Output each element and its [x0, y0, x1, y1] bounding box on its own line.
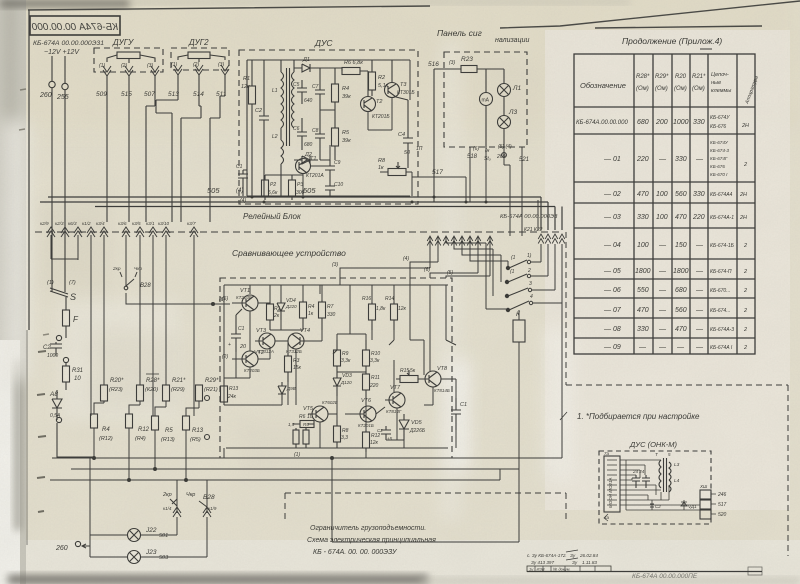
- table header: [580, 72, 760, 106]
- svg-text:R31: R31: [72, 368, 83, 374]
- svg-text:507: 507: [144, 91, 155, 98]
- svg-text:R6 6,8к: R6 6,8к: [344, 60, 363, 66]
- lamp L1: [498, 69, 522, 110]
- svg-text:12к: 12к: [398, 306, 407, 312]
- terminal 255: [62, 83, 68, 89]
- svg-text:24к: 24к: [227, 394, 237, 400]
- svg-text:VT1: VT1: [240, 288, 250, 294]
- svg-text:2: 2: [743, 243, 747, 249]
- connector arrow labels: [40, 221, 196, 226]
- resistor R23: [428, 56, 500, 202]
- svg-text:к3/6: к3/6: [118, 221, 127, 226]
- svg-text:330: 330: [675, 156, 687, 163]
- svg-text:2: 2: [743, 269, 747, 275]
- svg-text:521: 521: [519, 157, 529, 163]
- svg-text:R7: R7: [327, 304, 334, 310]
- svg-text:ХШ: ХШ: [699, 484, 708, 489]
- svg-text:КБ-674А-3: КБ-674А-3: [710, 327, 734, 333]
- svg-text:+: +: [228, 342, 231, 348]
- svg-text:39к: 39к: [342, 138, 351, 144]
- svg-text:L1: L1: [272, 88, 278, 94]
- svg-text:КТ201А: КТ201А: [306, 173, 324, 179]
- svg-text:2кр: 2кр: [162, 492, 172, 498]
- svg-text:3,3: 3,3: [341, 435, 348, 441]
- wire 514: [181, 75, 201, 222]
- resistor R6: [320, 60, 368, 75]
- svg-text:(5) (4): (5) (4): [498, 144, 512, 150]
- svg-text:1,8к: 1,8к: [376, 306, 386, 312]
- svg-text:560: 560: [675, 307, 687, 314]
- svg-text:1800: 1800: [635, 268, 651, 275]
- svg-text:(R23): (R23): [109, 387, 123, 393]
- svg-text:20: 20: [239, 344, 247, 350]
- svg-text:1. *Подбирается при настройк: 1. *Подбирается при настройке: [577, 412, 700, 421]
- svg-text:КБ-674-П: КБ-674-П: [710, 269, 732, 275]
- svg-text:520: 520: [718, 512, 727, 518]
- svg-text:С1: С1: [238, 326, 245, 332]
- svg-text:2: 2: [743, 288, 747, 294]
- block DUGU dashed box: [94, 38, 163, 72]
- svg-text:— 01: — 01: [603, 156, 621, 163]
- resistor R4c: [300, 300, 315, 330]
- svg-text:—: —: [638, 344, 647, 351]
- svg-text:R1: R1: [243, 76, 250, 82]
- capacitor C1 comp: [228, 309, 247, 352]
- svg-text:Р3: Р3: [297, 182, 303, 188]
- svg-text:VT3: VT3: [256, 328, 267, 334]
- svg-text:R5: R5: [165, 428, 173, 434]
- connector right: [699, 484, 727, 519]
- svg-text:VД1: VД1: [688, 504, 697, 509]
- wire -12V feed: [51, 56, 53, 287]
- potentiometer R8: [378, 158, 412, 176]
- svg-text:R28*: R28*: [636, 74, 650, 80]
- svg-text:(Ом): (Ом): [692, 86, 705, 92]
- svg-text:(4): (4): [236, 188, 243, 194]
- svg-text:— 05: — 05: [603, 268, 621, 275]
- wire DUS bottom rail: [247, 60, 410, 196]
- svg-text:(Ом): (Ом): [636, 86, 649, 92]
- svg-text:1000: 1000: [47, 353, 58, 359]
- svg-text:680: 680: [675, 287, 687, 294]
- transformer ONK-M: [655, 452, 680, 492]
- capacitor C9: [325, 160, 341, 180]
- svg-text:L4: L4: [674, 478, 680, 484]
- transistor T3: [385, 60, 416, 98]
- resistor R2b: [262, 175, 278, 200]
- block ONK-M dashed box: [599, 451, 711, 524]
- resistor R16: [362, 296, 386, 330]
- wire ONK-M mesh: [620, 460, 700, 516]
- connector arrows right cluster: [538, 234, 565, 244]
- wire ladder feeds: [446, 236, 508, 309]
- svg-text:Д226Б: Д226Б: [409, 428, 426, 434]
- svg-text:50: 50: [404, 150, 411, 156]
- diode VD5: [399, 414, 426, 440]
- svg-text:— 08: — 08: [603, 326, 621, 333]
- capacitor C4 dus: [396, 97, 413, 168]
- svg-text:(1: (1: [510, 269, 515, 275]
- svg-text:МООН МО21А: МООН МО21А: [608, 477, 613, 508]
- svg-text:КТ814Г: КТ814Г: [386, 409, 402, 414]
- svg-text:514: 514: [193, 91, 204, 98]
- svg-text:—: —: [695, 287, 704, 294]
- svg-text:R4: R4: [308, 304, 315, 310]
- wire 511: [210, 75, 225, 222]
- transistor T1: [296, 156, 325, 179]
- diode VD4: [277, 298, 297, 320]
- svg-text:220: 220: [369, 383, 379, 389]
- svg-text:260: 260: [39, 92, 52, 99]
- transistor VT8: [424, 366, 450, 393]
- svg-text:ные: ные: [711, 80, 721, 86]
- lamp J23: [90, 549, 207, 564]
- wire long bus 505 upper: [40, 197, 562, 230]
- svg-text:5к: 5к: [410, 368, 416, 374]
- resistor R2 dus: [369, 60, 389, 96]
- svg-text:680: 680: [304, 142, 313, 148]
- svg-text:— 03: — 03: [603, 214, 621, 221]
- capacitor C2: [43, 335, 62, 359]
- resistor Rb: [267, 302, 281, 330]
- svg-text:1.11.83: 1.11.83: [582, 560, 597, 565]
- svg-text:R10: R10: [371, 351, 380, 357]
- svg-text:513: 513: [168, 91, 179, 98]
- svg-text:255: 255: [56, 94, 69, 101]
- svg-text:2к: 2к: [273, 313, 280, 319]
- svg-text:Л1: Л1: [512, 85, 521, 92]
- fuse F: [63, 297, 80, 338]
- resistor R1: [241, 60, 256, 196]
- wire panel drops long: [510, 200, 562, 458]
- switch B28 upper: [112, 266, 230, 306]
- svg-text:503: 503: [159, 555, 169, 561]
- svg-text:к1/2: к1/2: [82, 221, 91, 226]
- svg-text:R11: R11: [371, 375, 380, 381]
- svg-text:(2): (2): [222, 354, 228, 360]
- svg-text:mA: mA: [482, 98, 490, 104]
- switch contact St4: [486, 294, 562, 312]
- svg-text:R4: R4: [342, 86, 349, 92]
- svg-text:— 09: — 09: [603, 344, 621, 351]
- resistor R7: [319, 300, 336, 330]
- diode VD2: [278, 382, 296, 400]
- svg-text:Панель сиг: Панель сиг: [437, 28, 482, 38]
- svg-text:3: 3: [529, 281, 532, 287]
- wire DUS top rail: [247, 59, 410, 61]
- svg-text:100: 100: [656, 191, 668, 198]
- svg-text:Р2: Р2: [270, 182, 276, 188]
- svg-text:КБ-674Г: КБ-674Г: [710, 156, 728, 161]
- svg-text:С4: С4: [398, 132, 405, 138]
- diode D2: [294, 152, 318, 164]
- svg-text:(R21): (R21): [204, 387, 218, 393]
- svg-text:Д9В: Д9В: [286, 386, 296, 391]
- svg-text:VT4: VT4: [300, 328, 310, 334]
- svg-text:2кр: 2кр: [112, 266, 121, 272]
- svg-text:В28: В28: [203, 494, 215, 501]
- svg-text:−12V +12V: −12V +12V: [44, 49, 80, 56]
- svg-text:R23: R23: [461, 56, 473, 63]
- svg-text:(R5): (R5): [190, 437, 201, 443]
- wire +12V feed: [64, 56, 66, 287]
- svg-text:С7: С7: [312, 84, 319, 90]
- svg-text:КБ - 674А. 00. 00. 000ЭЗУ: КБ - 674А. 00. 00. 000ЭЗУ: [313, 549, 398, 556]
- svg-text:КТ814Б: КТ814Б: [434, 388, 450, 393]
- wire 515: [128, 76, 130, 222]
- svg-text:— 02: — 02: [603, 191, 621, 198]
- svg-text:С5: С5: [293, 82, 300, 88]
- wire down left: [56, 448, 58, 458]
- wire ladder right returns: [541, 244, 562, 303]
- svg-text:515: 515: [121, 91, 132, 98]
- capacitor C2 comp: [377, 426, 393, 441]
- svg-text:470: 470: [675, 326, 687, 333]
- svg-text:—: —: [695, 268, 704, 275]
- svg-text:КТ301Б: КТ301Б: [397, 90, 415, 96]
- svg-text:КБ-670 I: КБ-670 I: [710, 172, 728, 177]
- svg-text:1000: 1000: [673, 119, 689, 126]
- left edge artifact marks: [37, 351, 46, 512]
- svg-text:(6): (6): [424, 267, 430, 273]
- svg-text:VT8: VT8: [437, 366, 448, 372]
- svg-text:R16: R16: [362, 296, 371, 302]
- svg-text:2: 2: [743, 162, 747, 168]
- svg-text:680: 680: [637, 119, 649, 126]
- svg-text:R13: R13: [229, 386, 238, 392]
- svg-text:1П: 1П: [416, 146, 423, 152]
- svg-text:L3: L3: [674, 462, 680, 468]
- resistor R28*: [137, 374, 161, 405]
- svg-text:к1/4: к1/4: [163, 506, 172, 511]
- wire panel drops: [470, 147, 522, 202]
- svg-text:R15: R15: [400, 368, 409, 374]
- svg-text:—: —: [676, 344, 685, 351]
- svg-text:ДУС: ДУС: [314, 38, 333, 48]
- switch B28 lower: [162, 492, 217, 557]
- block dashed boundaries right/bottom: [285, 232, 788, 556]
- diode D1: [294, 57, 320, 72]
- svg-text:R4: R4: [102, 427, 110, 433]
- svg-text:2: 2: [743, 308, 747, 314]
- svg-text:Т2: Т2: [376, 99, 382, 105]
- svg-text:J23: J23: [145, 549, 157, 556]
- svg-text:R20*: R20*: [110, 378, 124, 384]
- svg-text:10: 10: [74, 376, 81, 382]
- block DUS dashed box: [239, 38, 418, 204]
- connector arrows DUG2: [174, 65, 229, 75]
- bottom dark strip: [8, 575, 428, 584]
- resistor R14: [385, 296, 407, 330]
- svg-text:КБ-674-3: КБ-674-3: [710, 148, 729, 153]
- svg-text:Зу 413 397: Зу 413 397: [531, 560, 554, 565]
- svg-text:R8: R8: [342, 428, 349, 434]
- svg-text:КБ-674А 00.00.000ПЕ: КБ-674А 00.00.000ПЕ: [632, 573, 698, 580]
- svg-text:Зу: Зу: [572, 560, 578, 565]
- svg-text:к3/5: к3/5: [132, 221, 141, 226]
- svg-text:Цепоч-: Цепоч-: [711, 72, 729, 78]
- svg-text:505: 505: [207, 186, 220, 195]
- svg-text:С2: С2: [43, 345, 51, 351]
- svg-text:R6: R6: [299, 414, 306, 420]
- svg-text:К21 К22: К21 К22: [524, 227, 543, 233]
- transistor VT4: [286, 328, 310, 354]
- svg-text:R9: R9: [342, 351, 349, 357]
- wire 513: [156, 75, 178, 222]
- wire comparing inner links: [224, 285, 456, 458]
- resistor R10: [363, 340, 381, 372]
- svg-text:КБ-674А 00.00.000Э3: КБ-674А 00.00.000Э3: [500, 214, 558, 220]
- svg-text:—: —: [658, 156, 667, 163]
- svg-text:—: —: [695, 242, 704, 249]
- resistor R31: [63, 357, 84, 390]
- terminal 260 bottom: [55, 535, 90, 557]
- capacitor C6: [293, 118, 313, 150]
- wire 507: [146, 76, 155, 222]
- resistor R8c: [334, 420, 349, 448]
- svg-text:330: 330: [637, 326, 649, 333]
- svg-text:— 04: — 04: [603, 242, 621, 249]
- svg-text:220: 220: [636, 156, 649, 163]
- svg-text:С6: С6: [293, 126, 300, 132]
- svg-text:Л3: Л3: [508, 109, 517, 116]
- svg-text:1к: 1к: [378, 165, 384, 171]
- svg-text:1): 1): [527, 253, 532, 259]
- svg-text:R12: R12: [138, 427, 150, 433]
- svg-text:КБ-674У: КБ-674У: [710, 140, 729, 145]
- svg-text:505: 505: [303, 186, 316, 195]
- block panel dashed box: [444, 52, 527, 147]
- svg-text:R8: R8: [378, 158, 386, 164]
- svg-text:С8: С8: [312, 128, 319, 134]
- svg-text:Т3: Т3: [400, 82, 407, 88]
- svg-text:С1: С1: [460, 402, 467, 408]
- svg-text:КБ-674-1Б: КБ-674-1Б: [710, 243, 735, 249]
- svg-text:(1): (1): [294, 452, 300, 458]
- svg-text:200: 200: [655, 119, 668, 126]
- lamp L3: [498, 109, 518, 147]
- capacitor C1 right: [451, 398, 467, 430]
- svg-text:2: 2: [743, 345, 747, 351]
- capacitor C2 onk: [648, 502, 661, 509]
- svg-text:ДУС (ОНК-М): ДУС (ОНК-М): [629, 440, 677, 449]
- resistor R4: [91, 414, 113, 458]
- svg-text:(6): (6): [219, 297, 225, 303]
- wire top-row to second-row jogs: [94, 403, 194, 416]
- svg-text:VD5: VD5: [411, 420, 423, 426]
- svg-text:С2: С2: [255, 108, 262, 114]
- connector module: [604, 451, 620, 512]
- node junction dots on rails: [251, 196, 488, 204]
- svg-text:(3): (3): [449, 60, 455, 66]
- svg-text:501: 501: [159, 533, 168, 539]
- svg-text:5,6к: 5,6к: [268, 190, 278, 196]
- svg-text:S: S: [70, 292, 76, 302]
- connector arrows mid cluster: [427, 236, 493, 246]
- transistor VT1: [222, 288, 258, 311]
- svg-text:R28*: R28*: [146, 378, 160, 384]
- svg-text:516: 516: [428, 61, 439, 68]
- svg-text:Схема электрическая принципи: Схема электрическая принципиальная: [307, 537, 436, 544]
- capacitor C10: [325, 180, 343, 196]
- terminal 260: [49, 81, 55, 87]
- svg-text:330: 330: [327, 312, 336, 318]
- resistor R6b: [293, 414, 314, 428]
- svg-text:Д1: Д1: [302, 57, 310, 63]
- top dark smudge: [0, 0, 130, 7]
- svg-text:2: 2: [527, 268, 531, 274]
- light patches: [445, 360, 470, 470]
- svg-text:(К20): (К20): [145, 387, 158, 393]
- svg-text:R5: R5: [303, 422, 309, 427]
- svg-text:0,5А: 0,5А: [50, 413, 61, 419]
- wire left border: [28, 10, 30, 330]
- resistor R12: [126, 414, 150, 480]
- svg-text:2: 2: [743, 327, 747, 333]
- svg-text:10: 10: [307, 414, 313, 420]
- potentiometer R9: [333, 340, 351, 372]
- svg-text:470: 470: [637, 191, 649, 198]
- svg-text:(R29): (R29): [171, 387, 185, 393]
- svg-text:КБ-674...: КБ-674...: [710, 308, 730, 314]
- table grid: [574, 54, 755, 354]
- svg-text:26.02.84: 26.02.84: [579, 553, 598, 558]
- svg-text:КТ203Б: КТ203Б: [236, 295, 252, 300]
- connector arrows DUGU: [103, 66, 159, 76]
- resistor R13: [221, 380, 239, 405]
- capacitor C5: [293, 80, 313, 104]
- svg-text:(6): (6): [473, 146, 479, 152]
- wire top border: [28, 1, 800, 28]
- svg-text:к3/7: к3/7: [187, 221, 196, 226]
- svg-text:R21*: R21*: [692, 74, 706, 80]
- resistor pair bottom left: [288, 422, 309, 448]
- svg-text:2Н: 2Н: [739, 215, 747, 221]
- block comparing device dashed box: [220, 278, 452, 458]
- svg-text:(Ом): (Ом): [674, 86, 687, 92]
- diode A8: [49, 390, 62, 423]
- svg-text:к3/10: к3/10: [158, 221, 170, 226]
- transformer T: [272, 60, 294, 196]
- svg-text:246: 246: [717, 492, 727, 498]
- resistor R5 dus: [320, 110, 351, 160]
- svg-text:Ограничитель грузоподъемности: Ограничитель грузоподъемности.: [310, 524, 426, 532]
- svg-text:550: 550: [637, 287, 649, 294]
- svg-text:150: 150: [675, 242, 687, 249]
- svg-text:R5: R5: [342, 130, 350, 136]
- svg-text:511: 511: [216, 91, 227, 98]
- svg-text:(R4): (R4): [135, 436, 146, 442]
- svg-text:640: 640: [304, 98, 313, 104]
- svg-text:517: 517: [718, 502, 727, 508]
- svg-text:(R12): (R12): [99, 436, 113, 442]
- svg-text:—: —: [658, 326, 667, 333]
- switch S: [47, 280, 76, 302]
- svg-text:1800: 1800: [673, 268, 689, 275]
- svg-text:R20: R20: [675, 74, 687, 80]
- pin labels DUGU: [99, 63, 153, 69]
- capacitor pair 24: [632, 469, 650, 488]
- resistor R11: [363, 372, 381, 398]
- capacitor C2 dus: [255, 60, 269, 196]
- potentiometer in DUGU: [107, 52, 155, 63]
- svg-text:330: 330: [693, 119, 705, 126]
- svg-text:к2/9: к2/9: [40, 221, 49, 226]
- wire comparing inner rails: [224, 285, 448, 448]
- svg-text:560: 560: [675, 191, 687, 198]
- svg-text:КБ-670...: КБ-670...: [710, 288, 730, 294]
- svg-text:100: 100: [637, 242, 649, 249]
